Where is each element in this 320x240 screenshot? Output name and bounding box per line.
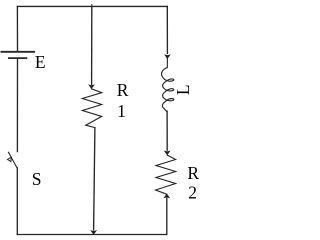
arrowhead up below R2 [163,194,170,199]
svg-text:L: L [173,84,193,95]
svg-text:2: 2 [188,182,197,202]
switch S blade [9,152,17,167]
switch S open arrowhead [7,157,11,161]
arrowhead down on right branch above R2 [164,151,171,156]
svg-text:1: 1 [117,101,126,121]
inductor L coil [162,59,174,112]
wire bottom horizontal [17,234,167,236]
wire right middle (L to R2) [166,111,168,150]
wire middle lower (R1 to bottom) [94,128,95,230]
battery E plate short [9,57,27,59]
battery E plate long [1,51,34,53]
svg-text:R: R [187,163,199,183]
arrowhead down on right branch top [164,54,171,59]
arrowhead down on middle branch bottom [90,230,97,235]
wire left lower (switch to bottom) [16,168,18,235]
wire right upper (top to L) [166,6,168,53]
node junction stub top middle [91,5,93,7]
resistor R2 zigzag [156,155,176,194]
wire top horizontal [17,5,167,7]
wire left upper (to battery) [16,6,18,51]
resistor R1 zigzag [82,89,101,128]
arrowhead down on middle branch top [88,84,95,89]
wire middle upper (top to R1) [91,6,93,84]
wire left middle (battery to switch) [16,59,18,152]
svg-text:R: R [117,80,129,100]
svg-text:S: S [32,169,42,189]
svg-text:E: E [35,52,46,72]
wire right lower (R2 to bottom) [166,198,168,235]
